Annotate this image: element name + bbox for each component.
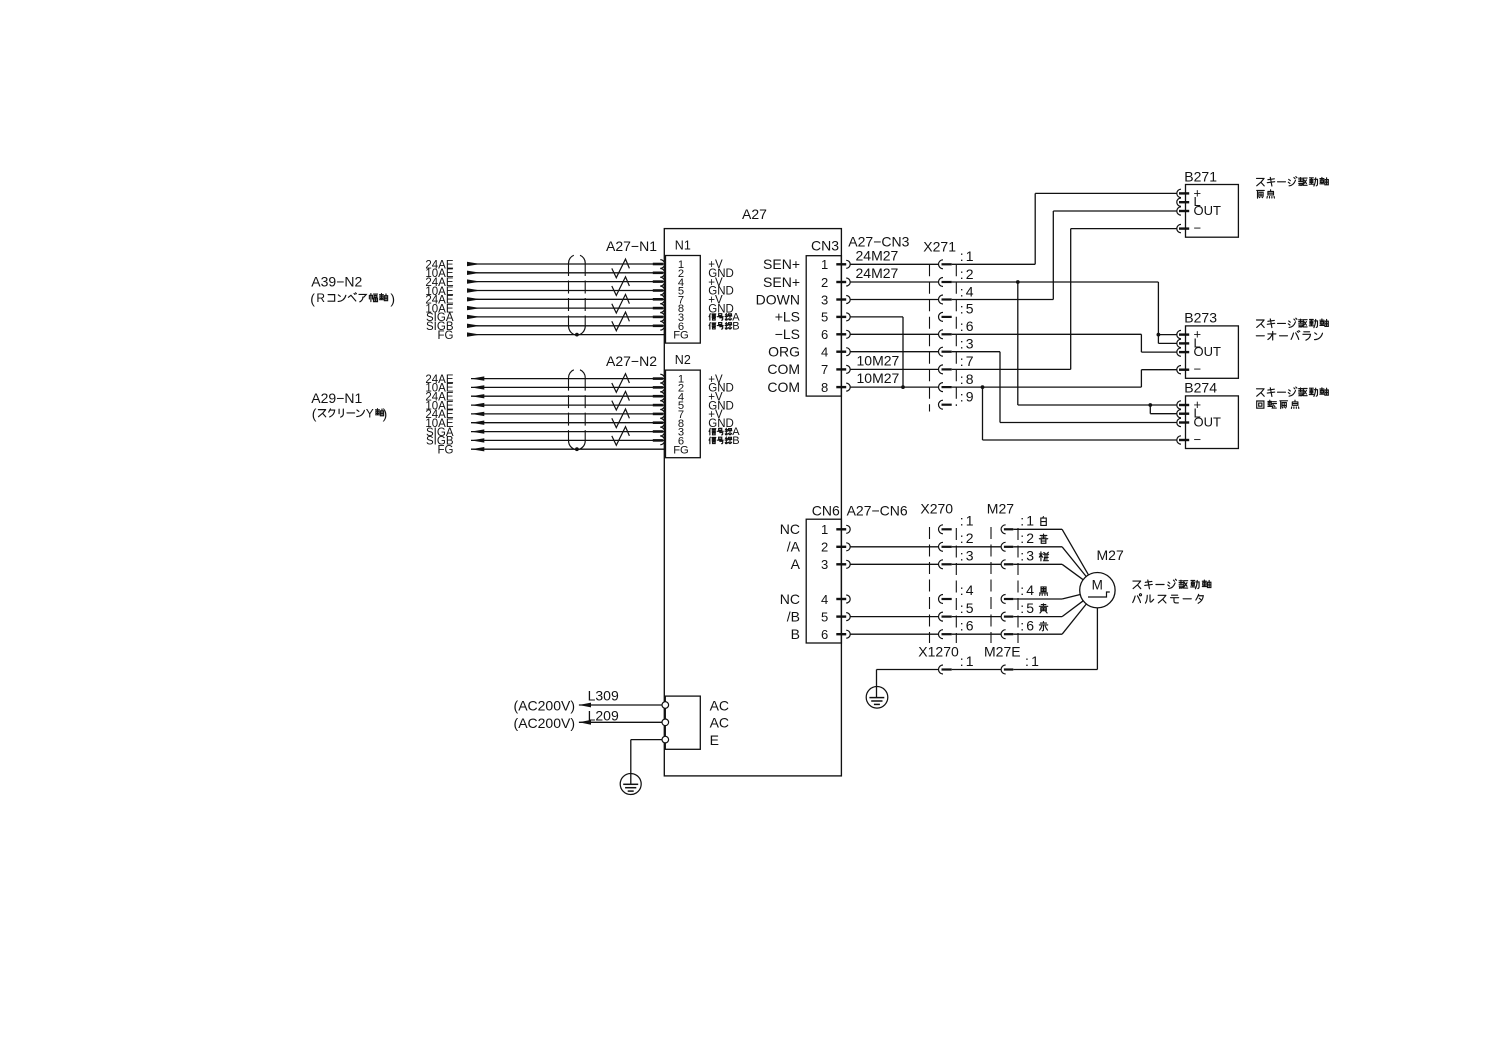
wire CN3-6 to X271 <box>850 333 938 335</box>
wire CN3-2 to X271 <box>850 281 938 283</box>
svg-text:6: 6 <box>821 327 828 342</box>
svg-text::7: :7 <box>960 353 976 369</box>
wire X271:1 to B271 + <box>952 263 1035 265</box>
svg-text:24M27: 24M27 <box>856 247 899 263</box>
sensor B274 <box>1186 396 1239 449</box>
controller unit A27 outline <box>664 229 841 776</box>
connector X271 boundary lines <box>929 264 931 411</box>
connector CN6 (on A27) <box>806 519 841 643</box>
wire A29 signal 10AE to N2 <box>471 386 665 388</box>
X271 pin :7 <box>939 365 944 374</box>
X271 pin :6 <box>939 330 944 339</box>
wire L209 (AC200V) <box>579 721 662 723</box>
M27 pin :1 白 <box>1001 525 1006 534</box>
wire X270:3 to M27:3 <box>952 563 1001 565</box>
wire A39 signal SIGB to N1 <box>467 325 665 327</box>
svg-text::1: :1 <box>960 513 976 529</box>
B274 pin OUT <box>1177 418 1181 426</box>
svg-text::1: :1 <box>960 248 976 264</box>
svg-text:FG: FG <box>673 330 689 342</box>
wire M27:4 to motor <box>1013 598 1062 600</box>
wire A39 signal FG to N1 <box>467 334 666 336</box>
svg-text:NC: NC <box>780 591 800 607</box>
svg-text:CN3: CN3 <box>811 238 839 254</box>
svg-text:2: 2 <box>821 275 828 290</box>
junction 24M27 branch <box>1016 280 1020 284</box>
svg-text:7: 7 <box>821 362 828 377</box>
svg-text:Y: Y <box>366 406 374 420</box>
X270 pin :5 <box>939 612 944 621</box>
svg-text:1: 1 <box>821 257 828 272</box>
svg-text::5: :5 <box>960 600 976 616</box>
svg-text:OUT: OUT <box>1194 344 1222 359</box>
svg-text:−: − <box>1194 362 1202 377</box>
twisted pair symbol <box>612 391 630 410</box>
svg-text:B: B <box>791 626 800 642</box>
svg-text::2: :2 <box>1020 530 1036 546</box>
svg-text:5: 5 <box>821 310 828 325</box>
wire X270:6 to M27:6 <box>952 633 1001 635</box>
N1 pin6 label 信号線B <box>709 320 740 332</box>
connector X1270 :1 <box>939 665 944 674</box>
svg-text:OUT: OUT <box>1194 203 1222 218</box>
wire X271:7 to B271 - <box>952 368 1071 370</box>
wire A29 signal 24AE to N2 <box>471 413 665 415</box>
svg-text::2: :2 <box>960 266 976 282</box>
B273 pin - <box>1177 366 1181 374</box>
wire A39 signal 24AE to N1 <box>467 263 665 265</box>
connector M27 boundary lines <box>990 527 992 643</box>
junction +LS/COM <box>901 385 905 389</box>
wire A39 signal 24AE to N1 <box>467 298 665 300</box>
wire A29 signal 24AE to N2 <box>471 395 665 397</box>
wire A29 signal 24AE to N2 <box>471 378 665 380</box>
M27 pin :5 黄 <box>1001 612 1006 621</box>
svg-text:L309: L309 <box>588 688 619 704</box>
wire M27:3 to motor <box>1013 563 1062 565</box>
N2 pin6 label 信号線B <box>709 435 740 447</box>
junction at B273 + <box>1157 333 1161 337</box>
svg-text::6: :6 <box>1020 617 1036 633</box>
wire X271:4 to B271 OUT <box>952 299 1054 301</box>
AC input terminal block <box>665 696 700 749</box>
B271 pin L <box>1177 198 1181 206</box>
svg-text::2: :2 <box>960 530 976 546</box>
wire CN3-4 to X271 <box>850 351 938 353</box>
X270 pin :3 <box>939 560 944 569</box>
svg-text:−: − <box>1194 432 1202 447</box>
svg-text:1: 1 <box>821 522 828 537</box>
wire A39 signal SIGA to N1 <box>467 316 665 318</box>
svg-text:A39−N2: A39−N2 <box>311 274 362 290</box>
svg-text:AC: AC <box>710 715 729 731</box>
svg-text:FG: FG <box>438 330 454 342</box>
svg-text:X270: X270 <box>920 501 953 517</box>
label スキージ駆動軸 パルスモータ <box>1133 579 1211 603</box>
X271 pin :4 <box>939 295 944 304</box>
label B274 スキージ駆動軸 回転原点 <box>1257 387 1329 409</box>
svg-text:SEN+: SEN+ <box>763 256 800 272</box>
terminal AC1 <box>662 702 669 709</box>
svg-text:B274: B274 <box>1184 380 1217 396</box>
B274 pin - <box>1177 436 1181 444</box>
wire X270:2 to M27:2 <box>952 546 1001 548</box>
terminal AC2 <box>662 719 669 726</box>
wire X270:5 to M27:5 <box>952 616 1001 618</box>
svg-text:(AC200V): (AC200V) <box>514 715 575 731</box>
svg-text:A27−N2: A27−N2 <box>606 353 657 369</box>
wire CN6-2 to X270 <box>850 546 938 548</box>
svg-text:24M27: 24M27 <box>856 265 899 281</box>
wire X1270 to earth <box>877 669 939 671</box>
svg-text:M27E: M27E <box>984 643 1021 659</box>
wire M27E to X1270 <box>952 669 1001 671</box>
svg-text:/B: /B <box>787 608 800 624</box>
svg-text:(: ( <box>312 406 317 422</box>
wire A29 signal FG to N2 <box>471 448 666 450</box>
svg-text:4: 4 <box>821 592 828 607</box>
wire X271:2 (24M27) to B273/B274 + <box>952 281 1159 283</box>
wire stub B273 + <box>1158 334 1176 336</box>
cable shield symbol (A39 bundle) <box>569 255 586 336</box>
wire CN3-5 (+LS) tie to CN3-8 (COM) <box>850 316 903 318</box>
B274 pin + <box>1177 401 1181 409</box>
svg-text::9: :9 <box>960 389 976 405</box>
svg-text:B: B <box>732 320 739 332</box>
M27 pin :2 青 <box>1001 542 1006 551</box>
twisted pair symbol <box>612 374 630 393</box>
svg-text:X1270: X1270 <box>918 643 959 659</box>
svg-text::4: :4 <box>1020 582 1036 598</box>
svg-text:X271: X271 <box>923 239 956 255</box>
wire M27:1 to motor <box>1013 528 1062 530</box>
wire CN6-6 to X270 <box>850 633 938 635</box>
connector X270 boundary lines <box>929 527 931 643</box>
svg-text:M27: M27 <box>987 501 1014 517</box>
wire A39 signal 24AE to N1 <box>467 281 665 283</box>
svg-text:E: E <box>710 732 719 748</box>
X271 pin :9 <box>939 400 944 409</box>
B271 pin - <box>1177 224 1181 232</box>
wire branch down to B274 - <box>982 387 984 440</box>
twisted pair symbol <box>612 312 630 331</box>
wire A39 signal 10AE to N1 <box>467 272 665 274</box>
svg-text:CN6: CN6 <box>812 502 840 518</box>
B273 pin + <box>1177 330 1181 338</box>
wire CN3-8 to X271 <box>850 386 938 388</box>
sensor B273 <box>1186 326 1239 378</box>
X270 pin :2 <box>939 542 944 551</box>
svg-text:A: A <box>791 556 801 572</box>
M27 pin :3 橙 <box>1001 560 1006 569</box>
svg-text:FG: FG <box>673 444 689 456</box>
wire L309 (AC200V) <box>579 704 662 706</box>
svg-text:FG: FG <box>438 445 454 457</box>
wire A39 signal 10AE to N1 <box>467 290 665 292</box>
junction at B274 + <box>1148 403 1152 407</box>
svg-text:N2: N2 <box>675 353 691 367</box>
svg-text:COM: COM <box>767 361 800 377</box>
svg-text:B: B <box>732 435 739 447</box>
svg-text:DOWN: DOWN <box>756 291 800 307</box>
svg-text:B273: B273 <box>1184 310 1217 326</box>
wire to B274 L <box>1149 405 1151 414</box>
twisted pair symbol <box>612 259 630 278</box>
connector M27E :1 <box>1001 665 1006 674</box>
wire X271:6 to B273 OUT <box>952 333 1142 335</box>
svg-text:+LS: +LS <box>775 309 800 325</box>
svg-text:M: M <box>1092 577 1103 592</box>
svg-text::1: :1 <box>1020 513 1036 529</box>
wire A29 signal SIGA to N2 <box>471 431 665 433</box>
svg-text:10M27: 10M27 <box>857 352 900 368</box>
label B273 スキージ駆動軸 ーオーバラン <box>1256 318 1328 340</box>
svg-text:8: 8 <box>821 380 828 395</box>
X271 pin :8 <box>939 383 944 392</box>
B271 pin OUT <box>1177 207 1181 215</box>
X271 pin :3 <box>939 347 944 356</box>
M27 pin :4 黒 <box>1001 595 1006 604</box>
svg-text:): ) <box>390 291 395 307</box>
svg-text:R: R <box>316 291 325 305</box>
wire motor frame to M27E <box>1096 608 1098 670</box>
wire CN3-1 to X271 <box>850 263 938 265</box>
X270 pin :1 <box>939 525 944 534</box>
svg-text:6: 6 <box>821 627 828 642</box>
svg-text:M27: M27 <box>1097 547 1124 563</box>
svg-text::5: :5 <box>960 301 976 317</box>
wire M27:6 to motor <box>1013 633 1062 635</box>
wire A29 signal 10AE to N2 <box>471 404 665 406</box>
svg-text::6: :6 <box>960 617 976 633</box>
svg-text:OUT: OUT <box>1194 415 1222 430</box>
svg-text::3: :3 <box>960 548 976 564</box>
svg-text:COM: COM <box>767 379 800 395</box>
wire E to earth <box>631 739 662 741</box>
wire CN3-3 to X271 <box>850 299 938 301</box>
svg-text::6: :6 <box>960 318 976 334</box>
N2 pin3 label 信号線A <box>709 426 740 438</box>
svg-text:/A: /A <box>787 539 801 555</box>
terminal E <box>662 736 669 743</box>
twisted pair symbol <box>612 277 630 296</box>
svg-text::5: :5 <box>1020 600 1036 616</box>
svg-text:5: 5 <box>821 609 828 624</box>
svg-text::3: :3 <box>1020 548 1036 564</box>
svg-text:A27−CN6: A27−CN6 <box>847 502 908 518</box>
B273 pin OUT <box>1177 348 1181 356</box>
connector CN3 (on A27) <box>806 256 841 396</box>
label B271 スキージ駆動軸 原点 <box>1257 177 1329 199</box>
B274 pin L <box>1177 410 1181 418</box>
wire M27:2 to motor <box>1013 546 1062 548</box>
svg-text:A27−N1: A27−N1 <box>606 238 657 254</box>
protective earth (motor cable) <box>866 687 888 709</box>
svg-text:3: 3 <box>821 292 828 307</box>
cable shield symbol (A29 bundle) <box>569 370 586 451</box>
wire CN6-3 to X270 <box>850 563 938 565</box>
svg-text:(: ( <box>310 291 315 307</box>
svg-text:2: 2 <box>821 540 828 555</box>
B273 pin L <box>1177 339 1181 347</box>
X271 pin :1 <box>939 260 944 269</box>
svg-text::1: :1 <box>1025 653 1041 669</box>
label (スクリーンY軸) <box>312 406 387 422</box>
wire A29 signal SIGB to N2 <box>471 439 665 441</box>
svg-text::4: :4 <box>960 582 976 598</box>
svg-text::4: :4 <box>960 283 976 299</box>
svg-text:−: − <box>1194 221 1202 236</box>
svg-text::1: :1 <box>960 653 976 669</box>
wire branch down to B274 + <box>1017 282 1019 405</box>
N1 pin3 label 信号線A <box>709 312 740 324</box>
twisted pair symbol <box>612 427 630 446</box>
svg-text:ORG: ORG <box>768 344 800 360</box>
M27 pin :6 赤 <box>1001 630 1006 639</box>
label (Rコンベア幅軸) <box>310 291 395 307</box>
wire A29 signal 10AE to N2 <box>471 422 665 424</box>
svg-text:10M27: 10M27 <box>857 370 900 386</box>
wire M27:5 to motor <box>1013 616 1062 618</box>
motor M27 (pulse motor) <box>1080 573 1115 608</box>
X270 pin :6 <box>939 630 944 639</box>
svg-text:SEN+: SEN+ <box>763 274 800 290</box>
connector N1 (on A27) <box>666 256 701 344</box>
svg-text:NC: NC <box>780 521 800 537</box>
wire CN6-5 to X270 <box>850 616 938 618</box>
X271 pin :2 <box>939 278 944 287</box>
X270 pin :4 <box>939 595 944 604</box>
svg-text:A27: A27 <box>742 206 767 222</box>
wire A39 signal 10AE to N1 <box>467 307 665 309</box>
svg-text:AC: AC <box>710 698 729 714</box>
junction 10M27 branch <box>981 385 985 389</box>
wire X271:3 to B274 OUT <box>952 351 1000 353</box>
svg-text:4: 4 <box>821 345 828 360</box>
svg-text:N1: N1 <box>675 238 691 252</box>
X271 pin :5 <box>939 312 944 321</box>
svg-text::3: :3 <box>960 336 976 352</box>
svg-text:A29−N1: A29−N1 <box>311 390 362 406</box>
svg-text:3: 3 <box>821 557 828 572</box>
sensor B271 <box>1186 185 1239 238</box>
svg-text:): ) <box>383 406 388 422</box>
protective earth (AC E) <box>620 774 641 795</box>
svg-text:−LS: −LS <box>775 326 800 342</box>
wire X271:8 (10M27) to B273/B274 - <box>952 386 1142 388</box>
twisted pair symbol <box>612 409 630 428</box>
B271 pin + <box>1177 189 1181 197</box>
wire CN3-7 to X271 <box>850 368 938 370</box>
svg-text:B271: B271 <box>1184 169 1217 185</box>
svg-text:(AC200V): (AC200V) <box>514 698 575 714</box>
twisted pair symbol <box>612 294 630 313</box>
svg-text::8: :8 <box>960 371 976 387</box>
connector N2 (on A27) <box>666 370 701 458</box>
svg-text:L209: L209 <box>588 708 619 724</box>
wire to B273 L <box>1158 342 1176 344</box>
